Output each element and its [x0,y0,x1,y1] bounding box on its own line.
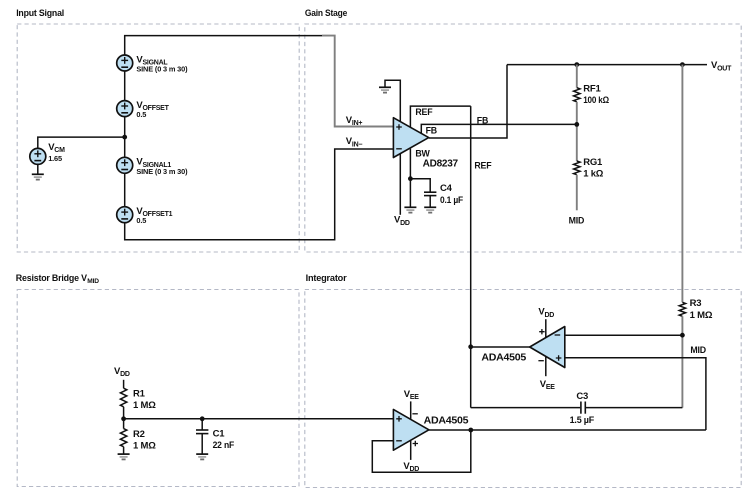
label R2 [133,429,156,452]
label VSIGNAL1 [136,157,188,176]
wire VIN+ (gray) [322,36,393,127]
svg-text:1 MΩ: 1 MΩ [133,440,156,451]
wire (gray) [576,65,578,88]
wire ground to REF pin top [385,80,400,121]
svg-text:FB: FB [426,125,437,135]
label C3 [570,391,595,426]
wire [123,407,125,429]
capacitor C3 [581,402,585,414]
op-amp U1 AD8237 [393,118,428,158]
svg-text:0.5: 0.5 [136,216,146,225]
section box: Input Signal [17,24,299,252]
node C1 tap [200,416,205,421]
label R1 [133,388,156,411]
svg-text:C3: C3 [576,391,588,402]
wire VOUT top [507,64,707,66]
node junction chain/VCM [122,135,127,140]
wire REF net vertical [470,106,472,408]
voltage source VOFFSET [117,101,133,117]
svg-text:MID: MID [569,216,585,226]
wire BW pin down [409,149,411,208]
ground VCM [32,174,44,179]
op-amp U3 ADA4505 (buffer) [393,409,429,450]
ground (AD8237 top) [379,87,391,92]
wire [201,419,203,430]
wire (gray) [576,175,578,211]
svg-text:1.65: 1.65 [48,154,62,163]
wire output [429,65,507,138]
svg-text:BW: BW [415,149,430,159]
svg-text:1 MΩ: 1 MΩ [690,310,713,321]
wire [124,117,126,158]
svg-text:REF: REF [415,107,433,117]
wire REF pin up-right [410,106,470,127]
wire bridge MID [124,418,394,420]
voltage source VSIGNAL1 [117,157,133,173]
wire VEE stub (U3) [410,401,412,419]
node R3 / integrator minus input [680,333,685,338]
wire [123,380,125,388]
minus mark VEE (U2) [538,360,543,362]
resistor RF1 [574,88,580,102]
voltage source VOFFSET1 [117,207,133,223]
label C4 [440,183,463,206]
svg-text:SINE (0 3 m 30): SINE (0 3 m 30) [136,167,188,176]
plus mark VDD (U2) [539,329,544,334]
label RF1 [583,83,609,106]
resistor R1 [120,388,126,407]
svg-text:RF1: RF1 [583,83,601,94]
wire plus input (U2) to MID [565,358,706,430]
node VOUT/right vertical [680,62,685,67]
svg-text:ADA4505: ADA4505 [424,416,469,427]
capacitor C4 [424,192,436,207]
wire minus input (U2) [565,334,683,336]
capacitor C1 [196,430,208,454]
minus mark VEE (U3) [412,413,417,415]
wire C3 right [586,407,682,409]
label VOFFSET [136,100,169,119]
wire [37,164,39,174]
svg-text:SINE (0 3 m 30): SINE (0 3 m 30) [136,65,188,74]
node REF/integrator output [468,344,473,349]
svg-text:0.1 µF: 0.1 µF [440,195,463,206]
label C1 [213,428,235,451]
wire [123,447,125,454]
svg-text:C4: C4 [440,183,453,194]
svg-text:MID: MID [87,278,99,285]
wire VCM to chain [38,137,125,148]
svg-text:ADA4505: ADA4505 [481,353,526,364]
ground (C4) [424,207,436,212]
wire U3 output/MID [429,429,706,431]
node R1/R2/MID [121,416,126,421]
label VCM [48,142,65,163]
svg-text:Gain Stage: Gain Stage [305,8,347,18]
svg-text:1.5 µF: 1.5 µF [570,415,595,426]
wire VEE stub (U2) [545,357,547,377]
wire VDD pin [399,154,401,215]
section box: Integrator [305,290,741,488]
section box: Gain Stage [305,24,741,252]
ground (BW) [404,207,416,212]
wire chain bottom to VIN- [125,149,394,240]
wire VDD stub (U2) [545,319,547,338]
svg-text:0.5: 0.5 [136,110,146,119]
label VOFFSET1 [136,206,172,225]
wire (gray) [576,102,578,161]
svg-text:FB: FB [477,116,488,126]
resistor RG1 [574,161,580,175]
ground (R2) [118,454,130,459]
wire C3 left [471,407,581,409]
wire to C4 [410,179,430,193]
label R3 [690,298,713,321]
svg-text:MID: MID [690,345,706,355]
wire VDD stub (U3) [410,440,412,460]
ground (C1) [196,454,208,459]
voltage source VCM [30,148,46,164]
svg-text:C1: C1 [213,428,226,439]
op-amp U2 ADA4505 (integrator) [530,327,565,368]
svg-text:Input Signal: Input Signal [16,8,64,18]
svg-text:R3: R3 [690,298,702,309]
wire U3 feedback loop [372,430,471,472]
label RG1 [583,157,604,179]
node VOUT/RF1 [574,62,579,67]
svg-text:1 MΩ: 1 MΩ [133,400,156,411]
plus mark VDD (U3) [413,441,418,446]
svg-text:1 kΩ: 1 kΩ [583,168,604,179]
node FB junction [574,122,579,127]
svg-text:R2: R2 [133,429,145,440]
svg-text:AD8237: AD8237 [423,159,459,170]
svg-text:R1: R1 [133,388,146,399]
svg-text:Resistor Bridge V: Resistor Bridge V [16,273,88,283]
label VSIGNAL [136,54,188,73]
wire FB pin [421,124,577,133]
node U3 output [468,428,473,433]
resistor R2 [120,429,126,447]
wire [124,71,126,101]
wire [124,173,126,206]
section box: Resistor Bridge VMID [17,290,299,487]
wire integrator output [471,346,530,348]
node BW/C4 junction [408,176,413,181]
svg-text:RG1: RG1 [583,157,603,168]
resistor R3 [679,302,685,316]
svg-text:Integrator: Integrator [306,273,348,283]
voltage source VSIGNAL [117,55,133,71]
svg-text:REF: REF [474,161,492,171]
svg-text:100 kΩ: 100 kΩ [583,95,609,106]
wire (gray) [681,65,683,303]
svg-text:22 nF: 22 nF [213,440,235,451]
wire chain top [125,36,322,55]
wire (gray) [681,316,683,407]
